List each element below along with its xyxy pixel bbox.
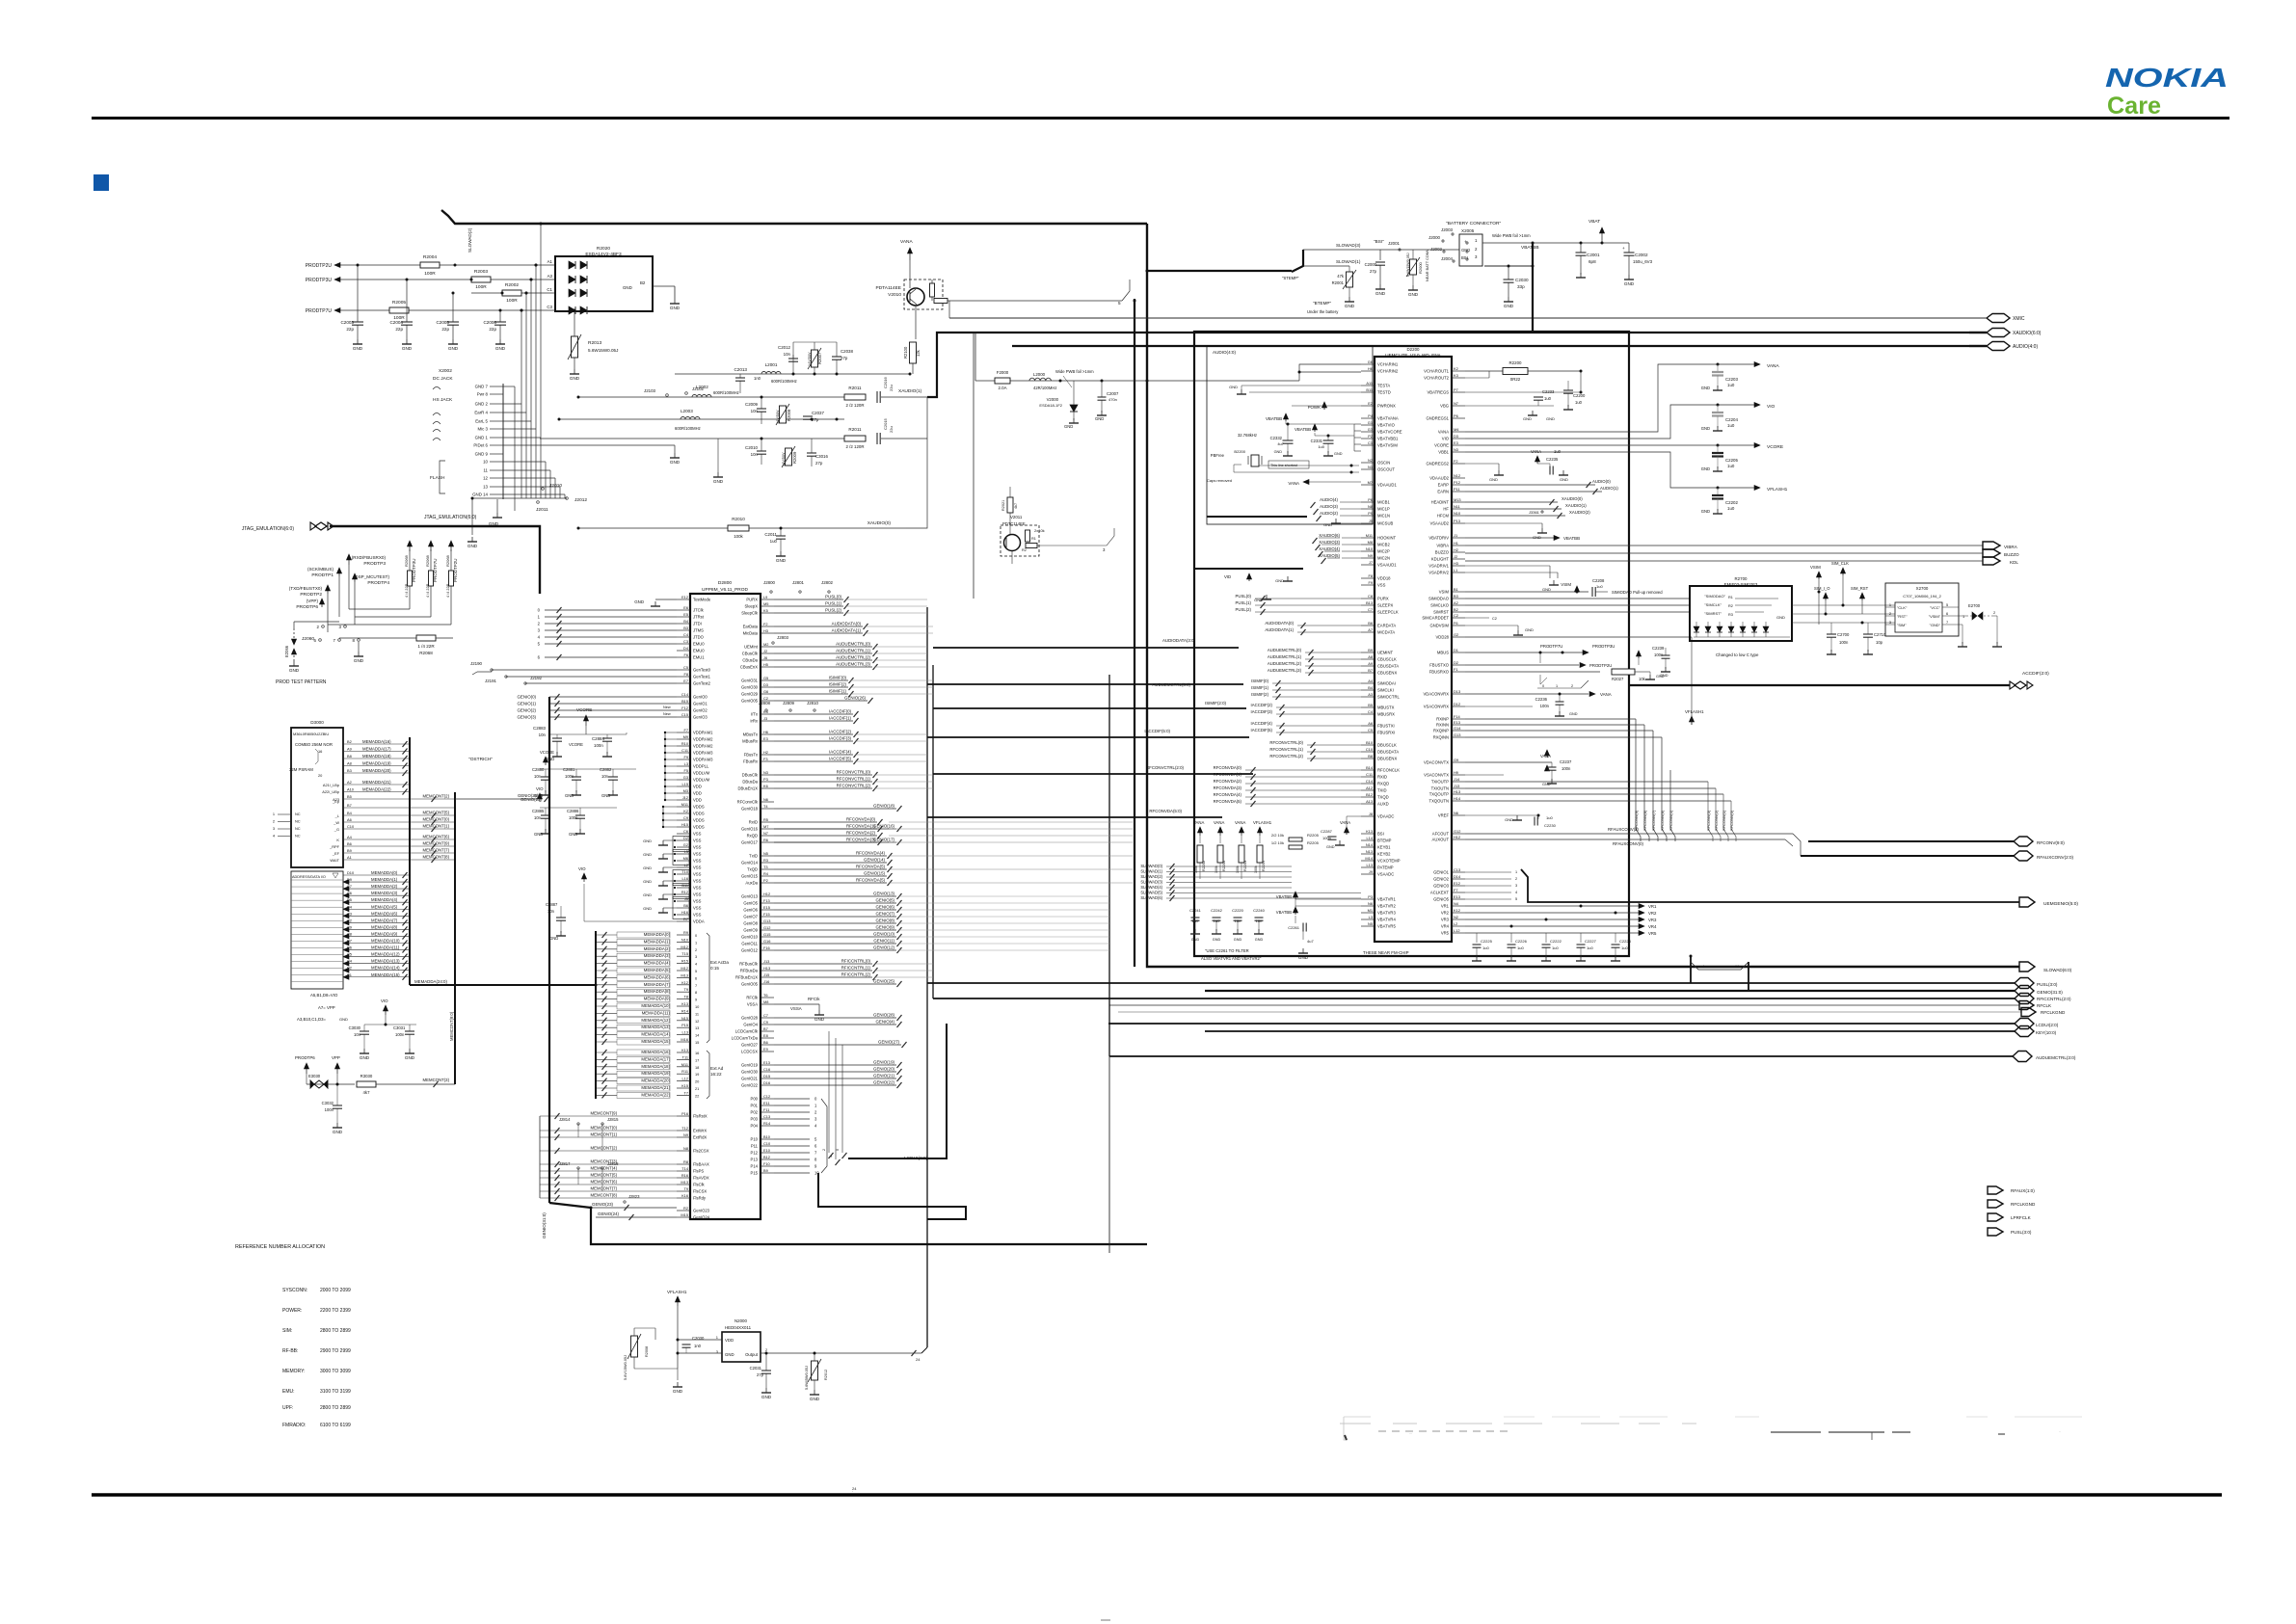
svg-text:R8: R8 [683, 1159, 688, 1164]
svg-text:MEMCONT(2): MEMCONT(2) [423, 794, 450, 799]
svg-text:C1: C1 [1368, 440, 1373, 445]
svg-text:MBusTx: MBusTx [743, 732, 759, 737]
svg-text:H5: H5 [763, 662, 768, 667]
svg-text:SIMCLKO: SIMCLKO [1430, 603, 1450, 608]
svg-text:H2: H2 [763, 750, 768, 755]
svg-text:MIC1P: MIC1P [1377, 507, 1390, 512]
svg-text:M13: M13 [681, 1180, 688, 1185]
svg-text:VBATVR5: VBATVR5 [1377, 924, 1396, 929]
svg-text:RF-BB:: RF-BB: [282, 1348, 298, 1354]
svg-text:FlsCSX: FlsCSX [693, 1189, 707, 1194]
svg-text:GND: GND [1229, 385, 1238, 389]
svg-text:RFAUXCONV(0): RFAUXCONV(0) [1613, 841, 1644, 846]
svg-text:GND: GND [1542, 587, 1551, 592]
svg-text:RFAUXCONV(2:0): RFAUXCONV(2:0) [2037, 855, 2074, 860]
svg-text:J2802: J2802 [821, 580, 834, 585]
svg-text:E8: E8 [763, 1033, 768, 1038]
svg-text:DBUSENX: DBUSENX [1377, 757, 1397, 761]
svg-text:MEMCONT(7): MEMCONT(7) [591, 1186, 618, 1191]
svg-text:B5: B5 [347, 794, 352, 799]
svg-text:VDDRAM2: VDDRAM2 [693, 737, 713, 742]
svg-text:1u0: 1u0 [770, 539, 778, 544]
svg-text:B6: B6 [763, 1040, 768, 1045]
svg-text:E3: E3 [763, 736, 768, 741]
svg-text:100n: 100n [594, 743, 603, 748]
svg-text:RFCONV(1): RFCONV(1) [1722, 810, 1726, 831]
svg-text:GENIO(8): GENIO(8) [875, 918, 894, 923]
svg-text:ACLKEXT: ACLKEXT [1430, 891, 1450, 895]
svg-text:M5: M5 [763, 601, 768, 606]
svg-text:GND: GND [1234, 938, 1242, 942]
svg-text:MEMCONT(0): MEMCONT(0) [423, 817, 450, 822]
svg-text:100n: 100n [1839, 640, 1849, 645]
svg-text:R3: R3 [1728, 613, 1733, 617]
svg-text:GND: GND [569, 832, 577, 837]
svg-text:J2817: J2817 [559, 1161, 571, 1166]
svg-text:10k: 10k [1639, 677, 1646, 681]
svg-text:N6: N6 [763, 797, 768, 802]
svg-text:GenIO05: GenIO05 [741, 699, 759, 704]
svg-text:UEMInt: UEMInt [744, 645, 759, 650]
svg-text:IrRx: IrRx [750, 719, 759, 724]
svg-text:1: 1 [829, 1156, 833, 1158]
svg-text:B6: B6 [347, 841, 352, 846]
svg-text:C9: C9 [683, 815, 688, 820]
svg-text:R2010: R2010 [732, 517, 745, 521]
svg-text:R2: R2 [683, 1206, 688, 1211]
svg-text:GND: GND [333, 1130, 343, 1134]
svg-text:MEMADDA(20): MEMADDA(20) [362, 768, 391, 773]
svg-text:GenIO6: GenIO6 [743, 908, 758, 913]
svg-text:6p8: 6p8 [1589, 259, 1596, 264]
svg-text:MicData: MicData [743, 631, 759, 636]
svg-text:TXIOUTP: TXIOUTP [1431, 780, 1449, 785]
svg-text:A2: A2 [347, 780, 352, 785]
svg-text:BSI: BSI [1377, 832, 1384, 837]
svg-text:Ext AcDa: Ext AcDa [710, 960, 729, 965]
svg-text:SLOWAD(4): SLOWAD(4) [1140, 885, 1162, 890]
svg-text:GND 2: GND 2 [475, 402, 489, 407]
svg-text:L12: L12 [682, 1077, 689, 1081]
svg-text:GenIO29: GenIO29 [741, 692, 759, 697]
svg-text:C10: C10 [347, 824, 355, 829]
svg-text:4u7: 4u7 [1307, 939, 1314, 944]
svg-text:C2015: C2015 [883, 417, 888, 430]
svg-text:RFCONV(7): RFCONV(7) [1651, 810, 1656, 831]
svg-text:MEMADDA(22): MEMADDA(22) [641, 1092, 670, 1097]
svg-text:PURX: PURX [1377, 597, 1389, 601]
svg-text:11: 11 [483, 468, 488, 473]
svg-text:J2004: J2004 [1441, 256, 1454, 261]
svg-text:GENIO(7): GENIO(7) [875, 912, 894, 917]
svg-text:TESTD: TESTD [1377, 390, 1391, 395]
svg-text:10n: 10n [534, 774, 542, 779]
svg-text:2: 2 [1571, 684, 1573, 688]
svg-text:SIM_RST: SIM_RST [1851, 586, 1869, 591]
svg-text:GenIO10: GenIO10 [741, 935, 759, 940]
svg-text:VDDS: VDDS [693, 818, 705, 823]
svg-text:TXQD: TXQD [1377, 795, 1389, 800]
svg-text:J2809: J2809 [783, 701, 795, 706]
svg-text:7: 7 [1946, 620, 1948, 625]
svg-text:GND: GND [1345, 304, 1355, 308]
svg-text:RFCONVCTRL(2:0): RFCONVCTRL(2:0) [1146, 765, 1185, 770]
svg-text:GND: GND [761, 1395, 772, 1399]
svg-text:EARN: EARN [1437, 490, 1449, 494]
svg-text:2/2 10k: 2/2 10k [1271, 833, 1284, 838]
svg-text:VSS: VSS [693, 872, 702, 877]
svg-text:G14: G14 [1454, 726, 1461, 731]
svg-text:D15: D15 [763, 1074, 770, 1078]
svg-text:10n: 10n [1256, 918, 1263, 923]
svg-text:L2000: L2000 [1033, 372, 1046, 377]
svg-text:J2010: J2010 [549, 483, 562, 489]
svg-text:LCDCamTxDa: LCDCamTxDa [732, 1036, 759, 1041]
svg-text:GND: GND [1274, 450, 1283, 454]
svg-text:JTRst: JTRst [693, 615, 705, 620]
svg-text:K5: K5 [763, 608, 768, 613]
svg-text:ISIMIF(1): ISIMIF(1) [1251, 685, 1268, 690]
svg-text:VIO: VIO [381, 998, 388, 1003]
svg-text:4k7: 4k7 [363, 1090, 371, 1095]
svg-text:N6: N6 [1368, 901, 1373, 906]
svg-text:J2011: J2011 [536, 507, 548, 513]
svg-text:VDDRAM1: VDDRAM1 [693, 731, 713, 735]
svg-text:GND: GND [1504, 304, 1514, 308]
svg-text:C12: C12 [763, 1094, 770, 1099]
svg-text:B15: B15 [681, 699, 688, 704]
svg-text:VBB1: VBB1 [1438, 450, 1449, 455]
svg-text:VSS: VSS [693, 899, 702, 904]
svg-text:MBusRx: MBusRx [742, 739, 759, 744]
svg-text:GND: GND [565, 793, 574, 798]
svg-text:22p: 22p [346, 327, 354, 332]
svg-text:M13: M13 [681, 972, 688, 977]
svg-text:GENIO2: GENIO2 [1433, 877, 1449, 882]
svg-text:GND 9: GND 9 [475, 452, 489, 457]
svg-text:R2: R2 [1022, 548, 1027, 552]
svg-text:G13: G13 [1454, 732, 1460, 737]
svg-text:P03: P03 [751, 1117, 759, 1122]
svg-text:SLOWAD(1): SLOWAD(1) [1140, 869, 1162, 874]
svg-text:VREF: VREF [1438, 813, 1450, 818]
svg-text:MEMCONT(8): MEMCONT(8) [423, 855, 450, 860]
svg-text:GENIO5: GENIO5 [1433, 897, 1449, 902]
svg-text:VSS: VSS [693, 845, 702, 850]
svg-text:RFICCNTRL(2): RFICCNTRL(2) [841, 972, 871, 977]
svg-text:AUDIO(4): AUDIO(4) [1320, 497, 1338, 502]
svg-text:RFCONV(0): RFCONV(0) [1729, 810, 1734, 831]
svg-text:L1: L1 [1454, 568, 1457, 572]
svg-text:KEYB1: KEYB1 [1377, 845, 1391, 850]
svg-text:C2202: C2202 [1725, 500, 1738, 505]
svg-text:VSS: VSS [693, 865, 702, 870]
svg-text:16:22: 16:22 [710, 1072, 722, 1077]
svg-text:Pwr 8: Pwr 8 [477, 392, 489, 397]
svg-text:GND: GND [776, 558, 787, 563]
svg-text:GND: GND [670, 306, 681, 310]
svg-text:PUSL(0): PUSL(0) [1236, 594, 1252, 599]
svg-text:A3: A3 [547, 274, 553, 279]
svg-text:VSIM: VSIM [1810, 565, 1821, 570]
svg-text:JTMS: JTMS [693, 628, 704, 633]
svg-text:C2009: C2009 [745, 402, 758, 407]
svg-text:RFCLK: RFCLK [2037, 1003, 2052, 1008]
svg-text:H13: H13 [1454, 789, 1460, 794]
svg-text:AUDUEMCTRL(3:0): AUDUEMCTRL(3:0) [2036, 1055, 2076, 1060]
svg-text:R6: R6 [763, 838, 768, 842]
svg-text:C10: C10 [763, 1141, 771, 1146]
svg-text:AUDIO(4:0): AUDIO(4:0) [1213, 350, 1236, 355]
svg-text:GENIO(3): GENIO(3) [517, 715, 536, 720]
svg-text:P13: P13 [751, 1158, 759, 1162]
svg-text:GND: GND [810, 1397, 820, 1401]
svg-text:GENIO(6): GENIO(6) [875, 905, 894, 910]
svg-text:LCDCSX: LCDCSX [741, 1050, 758, 1054]
svg-text:SIMRST: SIMRST [1433, 610, 1449, 615]
svg-text:GND: GND [1701, 509, 1710, 514]
svg-text:B1: B1 [1454, 587, 1458, 592]
svg-text:VCORE: VCORE [540, 750, 554, 755]
svg-text:AUDIODATA(1): AUDIODATA(1) [1265, 627, 1294, 632]
svg-text:AuxDa: AuxDa [745, 881, 758, 886]
svg-text:A4: A4 [1368, 679, 1374, 683]
svg-text:GND: GND [1701, 386, 1710, 390]
svg-text:Under the battery: Under the battery [1307, 309, 1339, 314]
svg-text:AUDIO(2): AUDIO(2) [1320, 511, 1338, 516]
svg-text:C4: C4 [1368, 709, 1374, 714]
svg-text:PRODTP2U: PRODTP2U [1589, 663, 1612, 668]
svg-text:C11: C11 [681, 748, 688, 753]
svg-text:EMU0: EMU0 [693, 642, 705, 647]
svg-text:1u0: 1u0 [1727, 383, 1735, 387]
svg-text:C6: C6 [683, 829, 688, 834]
svg-text:MEMADDA(18): MEMADDA(18) [641, 1064, 670, 1069]
svg-text:R2003: R2003 [474, 269, 488, 275]
svg-text:M13: M13 [1454, 497, 1461, 502]
svg-text:T14: T14 [681, 1166, 689, 1171]
svg-text:VCORE: VCORE [1767, 444, 1783, 450]
svg-text:H2: H2 [1454, 547, 1458, 552]
svg-text:0:15: 0:15 [710, 966, 719, 971]
svg-text:SLOWAD(5): SLOWAD(5) [1140, 891, 1162, 895]
svg-text:CBUSENX: CBUSENX [1377, 671, 1397, 676]
svg-text:1u0: 1u0 [1544, 396, 1552, 401]
svg-text:MEMCONT(3): MEMCONT(3) [423, 1078, 450, 1082]
svg-text:L12: L12 [1454, 928, 1460, 933]
svg-text:M9: M9 [683, 734, 688, 739]
svg-text:G1: G1 [1368, 420, 1373, 425]
svg-text:E13: E13 [1454, 894, 1460, 899]
svg-text:K6: K6 [763, 784, 768, 788]
svg-text:2 /2 120R: 2 /2 120R [845, 403, 864, 408]
svg-text:PRODTP7U: PRODTP7U [306, 308, 333, 314]
svg-text:MIC2P: MIC2P [1377, 549, 1390, 554]
svg-text:C2261: C2261 [1288, 925, 1300, 930]
svg-text:MEMADDA(16): MEMADDA(16) [641, 1050, 670, 1054]
svg-text:P3: P3 [1368, 894, 1373, 899]
svg-text:N12: N12 [1454, 473, 1460, 478]
svg-text:7: 7 [695, 983, 697, 988]
svg-text:F11: F11 [763, 1107, 769, 1112]
svg-text:4 /4 22R: 4 /4 22R [426, 583, 430, 598]
svg-text:3: 3 [273, 826, 275, 831]
svg-text:GenIO27: GenIO27 [741, 1043, 759, 1048]
svg-text:32.768kHz: 32.768kHz [1238, 433, 1257, 438]
svg-text:GND: GND [353, 346, 363, 351]
svg-text:P3: P3 [763, 777, 768, 782]
svg-text:PUSL(1): PUSL(1) [1236, 600, 1252, 605]
svg-text:0: 0 [1542, 684, 1544, 688]
svg-text:TXID: TXID [1377, 788, 1387, 793]
svg-text:P14: P14 [751, 1164, 759, 1169]
svg-text:VANA: VANA [1193, 820, 1205, 825]
svg-text:10n: 10n [601, 774, 609, 779]
svg-text:C2204: C2204 [1725, 417, 1738, 422]
svg-text:MEMCONT(9): MEMCONT(9) [591, 1111, 618, 1116]
svg-text:R2068: R2068 [404, 554, 409, 567]
svg-text:1u0: 1u0 [1482, 945, 1489, 950]
svg-text:R2008: R2008 [787, 409, 791, 421]
svg-text:MEMADDA(15): MEMADDA(15) [641, 1039, 670, 1044]
svg-text:TXIOUTN: TXIOUTN [1431, 786, 1449, 791]
svg-text:VANA: VANA [1438, 430, 1449, 435]
svg-text:PRODTP1: PRODTP1 [311, 572, 334, 578]
svg-text:RFCONVDA(3): RFCONVDA(3) [1214, 785, 1242, 790]
svg-text:R2007: R2007 [817, 352, 822, 364]
svg-text:BUZZO: BUZZO [1435, 550, 1450, 555]
svg-text:MEMADDA(2): MEMADDA(2) [371, 884, 398, 889]
svg-text:R2012: R2012 [824, 1370, 828, 1380]
svg-text:MEMCONT(1): MEMCONT(1) [423, 824, 450, 829]
svg-text:B4: B4 [1368, 685, 1374, 690]
svg-text:ExtWrX: ExtWrX [693, 1129, 707, 1133]
svg-text:C3: C3 [683, 639, 688, 644]
svg-text:GenIO15: GenIO15 [741, 874, 759, 879]
svg-text:ISIMIF(1): ISIMIF(1) [829, 689, 847, 694]
svg-text:CBusEnX: CBusEnX [740, 665, 758, 670]
svg-text:10n: 10n [534, 815, 542, 820]
svg-text:C2287: C2287 [1321, 829, 1333, 834]
svg-text:GND: GND [1213, 938, 1221, 942]
svg-text:P4: P4 [1368, 413, 1374, 418]
svg-text:R2206: R2206 [1222, 861, 1226, 871]
svg-text:GND: GND [495, 346, 506, 351]
svg-text:AUDIODATA(0): AUDIODATA(0) [1265, 621, 1294, 626]
svg-text:0R22: 0R22 [1510, 377, 1521, 382]
svg-text:RxID: RxID [749, 820, 758, 825]
svg-text:B4: B4 [683, 619, 689, 624]
svg-text:GND: GND [1323, 522, 1332, 527]
svg-text:F7: F7 [683, 728, 688, 732]
svg-text:B9: B9 [1368, 648, 1373, 652]
svg-text:VBATDRIV: VBATDRIV [1428, 536, 1449, 541]
svg-text:L16: L16 [682, 876, 689, 881]
svg-text:C10: C10 [1366, 747, 1374, 752]
svg-text:A21/_LBp: A21/_LBp [323, 783, 339, 787]
svg-text:HOOKINT: HOOKINT [1377, 536, 1397, 541]
svg-text:ISIMIF(2): ISIMIF(2) [829, 682, 847, 687]
svg-text:GENIO(1): GENIO(1) [517, 702, 536, 706]
svg-text:1u0: 1u0 [1546, 815, 1553, 820]
svg-text:GENIO(19): GENIO(19) [873, 1060, 894, 1065]
svg-text:1n0: 1n0 [1192, 918, 1199, 923]
svg-text:E2066: E2066 [284, 645, 289, 657]
svg-text:MEMADDA(14): MEMADDA(14) [371, 966, 400, 971]
svg-text:AUDIO(1): AUDIO(1) [1600, 486, 1618, 491]
svg-text:DBUSDATA: DBUSDATA [1377, 750, 1399, 755]
svg-text:AUDIODATA(0): AUDIODATA(0) [832, 622, 862, 626]
svg-text:GENIO(11): GENIO(11) [873, 939, 894, 944]
svg-text:GENIO3: GENIO3 [1433, 884, 1449, 889]
svg-text:PUSL(0): PUSL(0) [825, 595, 841, 599]
svg-text:L15: L15 [682, 782, 689, 786]
svg-text:VR1: VR1 [1648, 904, 1657, 909]
svg-text:MEMCONT(8): MEMCONT(8) [591, 1193, 618, 1198]
svg-text:C2016: C2016 [883, 376, 888, 388]
svg-text:VIO: VIO [1767, 404, 1775, 410]
svg-text:GENIO(22): GENIO(22) [873, 1080, 894, 1085]
svg-text:V2000: V2000 [1047, 397, 1059, 402]
svg-text:1: 1 [273, 812, 275, 816]
svg-text:GND: GND [289, 668, 300, 673]
svg-text:"CLK": "CLK" [1897, 605, 1908, 610]
svg-text:RFCLKGND: RFCLKGND [2041, 1010, 2066, 1015]
svg-text:1u0: 1u0 [1517, 945, 1524, 950]
svg-text:GenTest2: GenTest2 [693, 681, 711, 686]
svg-text:N10: N10 [1454, 511, 1461, 516]
svg-text:G3: G3 [683, 775, 688, 780]
svg-text:XAUDIO(1): XAUDIO(1) [1565, 503, 1587, 508]
svg-text:M12: M12 [681, 945, 688, 949]
svg-text:VBATVANA: VBATVANA [1377, 416, 1399, 421]
svg-text:MEMADDA(17): MEMADDA(17) [641, 1056, 670, 1061]
svg-text:B2: B2 [1454, 607, 1458, 612]
svg-text:VSS: VSS [693, 892, 702, 897]
svg-text:GND: GND [1334, 452, 1343, 456]
svg-text:MEMCONT(6): MEMCONT(6) [591, 1180, 618, 1185]
svg-text:1: 1 [695, 940, 697, 945]
svg-text:1: 1 [1962, 614, 1964, 619]
svg-text:C2007: C2007 [1107, 391, 1119, 396]
svg-text:R2020: R2020 [597, 246, 610, 252]
svg-text:VSIM: VSIM [1439, 590, 1450, 595]
svg-text:EarR 4: EarR 4 [474, 411, 488, 415]
svg-text:VSS: VSS [693, 859, 702, 864]
svg-text:MEMADDA(6): MEMADDA(6) [371, 911, 398, 916]
svg-text:5.6W/5W0.05J: 5.6W/5W0.05J [805, 1366, 809, 1390]
svg-text:1n0: 1n0 [754, 376, 761, 381]
svg-text:RFAUXCONV(2): RFAUXCONV(2) [1608, 827, 1640, 832]
svg-text:9: 9 [695, 998, 697, 1002]
svg-text:GenIO05: GenIO05 [741, 982, 759, 987]
svg-text:C5: C5 [1368, 728, 1373, 732]
svg-text:VFLASH1: VFLASH1 [1685, 709, 1704, 714]
svg-text:R14: R14 [681, 1008, 689, 1013]
svg-text:2900 TO 2999: 2900 TO 2999 [320, 1348, 351, 1354]
svg-text:C2331: C2331 [1311, 439, 1323, 443]
svg-text:12k: 12k [916, 349, 921, 357]
svg-text:GND: GND [1546, 416, 1555, 421]
svg-text:K16: K16 [681, 1193, 688, 1198]
svg-text:J2000: J2000 [1428, 235, 1441, 240]
svg-text:MBUS: MBUS [1437, 651, 1449, 655]
svg-text:2800 TO 2899: 2800 TO 2899 [320, 1405, 351, 1411]
svg-text:VBATVCORE: VBATVCORE [1377, 430, 1402, 435]
svg-text:A9: A9 [347, 747, 352, 752]
svg-text:J12: J12 [682, 795, 688, 800]
svg-text:D4: D4 [683, 646, 689, 651]
